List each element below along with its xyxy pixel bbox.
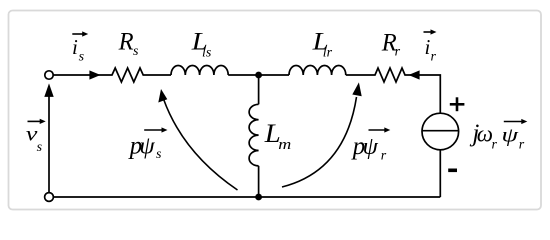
wire bottom rail bbox=[53, 196, 440, 198]
label Llr bbox=[312, 27, 333, 61]
svg-text:r: r bbox=[519, 137, 525, 152]
terminal bottom-left bbox=[45, 193, 54, 202]
source jwr psi_r (back-emf) bbox=[422, 113, 459, 150]
svg-text:r: r bbox=[395, 44, 401, 59]
wire Llr to Rr bbox=[346, 74, 372, 76]
node bottom junction bbox=[255, 194, 262, 201]
current arrow ir bbox=[409, 70, 420, 79]
label p psi_r bbox=[351, 127, 391, 163]
svg-text:r: r bbox=[492, 137, 498, 152]
label + bbox=[450, 97, 465, 111]
wire Rr to right corner and down to source bbox=[408, 75, 441, 113]
label vs (stator voltage) bbox=[26, 119, 46, 155]
svg-text:s: s bbox=[37, 140, 43, 155]
label Lls bbox=[191, 27, 212, 61]
wire Lm branch with inductor Lm bbox=[249, 75, 259, 197]
svg-text:ψ: ψ bbox=[363, 133, 379, 160]
node top junction bbox=[255, 72, 262, 79]
label Rr bbox=[381, 29, 401, 59]
flux arrow p psi_s (curved) bbox=[158, 89, 237, 190]
wire Lls to Llr across top node bbox=[228, 74, 289, 76]
svg-text:R: R bbox=[118, 29, 134, 56]
svg-text:s: s bbox=[133, 44, 139, 59]
resistor Rr bbox=[372, 68, 408, 82]
label Rs bbox=[118, 29, 139, 60]
svg-text:ls: ls bbox=[202, 45, 212, 60]
svg-text:lr: lr bbox=[323, 46, 333, 61]
resistor Rs bbox=[109, 68, 146, 82]
voltage arrow vs bbox=[44, 83, 53, 193]
inductor Llr bbox=[289, 65, 346, 75]
svg-text:s: s bbox=[79, 49, 85, 64]
flux arrow p psi_r (curved) bbox=[282, 82, 362, 187]
svg-text:ψ: ψ bbox=[502, 125, 520, 147]
svg-text:i: i bbox=[72, 35, 78, 59]
label p psi_s bbox=[128, 127, 168, 161]
wire Rs to Lls bbox=[146, 74, 171, 76]
svg-text:r: r bbox=[431, 50, 437, 65]
inductor Lls bbox=[171, 66, 228, 76]
svg-text:ψ: ψ bbox=[139, 133, 155, 160]
wire top-left segment bbox=[53, 74, 109, 76]
wire source bottom to rail bbox=[439, 150, 441, 197]
label is (stator current) bbox=[72, 31, 88, 64]
svg-text:m: m bbox=[278, 137, 291, 153]
terminal top-left bbox=[45, 71, 53, 79]
label Lm bbox=[264, 119, 292, 153]
label ir (rotor current) bbox=[424, 29, 437, 64]
svg-text:s: s bbox=[156, 147, 162, 162]
label - bbox=[448, 169, 457, 173]
svg-text:r: r bbox=[381, 148, 387, 163]
current arrow is bbox=[89, 70, 100, 79]
label jwr psir bbox=[469, 119, 527, 152]
